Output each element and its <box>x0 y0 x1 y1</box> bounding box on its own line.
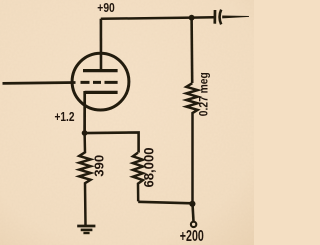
capacitor C1 left plate <box>213 10 216 24</box>
resistor R1 390 <box>79 133 90 225</box>
wire: grid input lead (to left edge) <box>3 81 76 85</box>
terminal +200 (open circle) <box>191 222 196 227</box>
svg-text:390: 390 <box>91 155 106 177</box>
tube V1 grid (dashed) <box>81 81 118 84</box>
svg-text:+90: +90 <box>97 0 115 15</box>
capacitor C1 right plate (curved) <box>220 10 222 25</box>
wire: top junction down to R3 <box>190 18 193 83</box>
node: bottom junction dot <box>189 201 195 207</box>
wire: +90 supply rail (top horizontal) <box>101 17 214 19</box>
wire: cathode lead down to junction <box>83 91 86 133</box>
svg-text:+200: +200 <box>180 228 204 245</box>
wire: junction to +200 terminal <box>193 204 194 221</box>
tube V1 cathode <box>85 91 118 94</box>
tube V1 envelope <box>72 53 129 110</box>
node: top junction dot <box>189 15 195 21</box>
svg-text:0.27 meg: 0.27 meg <box>197 72 211 116</box>
svg-text:68,000: 68,000 <box>142 148 157 188</box>
node: cathode junction dot <box>82 130 88 136</box>
svg-text:+1.2: +1.2 <box>55 110 75 124</box>
ground <box>77 226 95 233</box>
resistor R2 68,000 <box>133 153 143 202</box>
wire: plate lead from +90 rail into tube <box>100 19 103 70</box>
wire: R2 bottom to +200 junction <box>138 202 192 204</box>
tube V1 plate <box>83 69 118 72</box>
wire: capacitor right lead (tapered) <box>222 16 249 19</box>
wire: cathode junction to R2 top <box>85 132 139 152</box>
resistor R3 0.27 meg <box>186 83 197 203</box>
